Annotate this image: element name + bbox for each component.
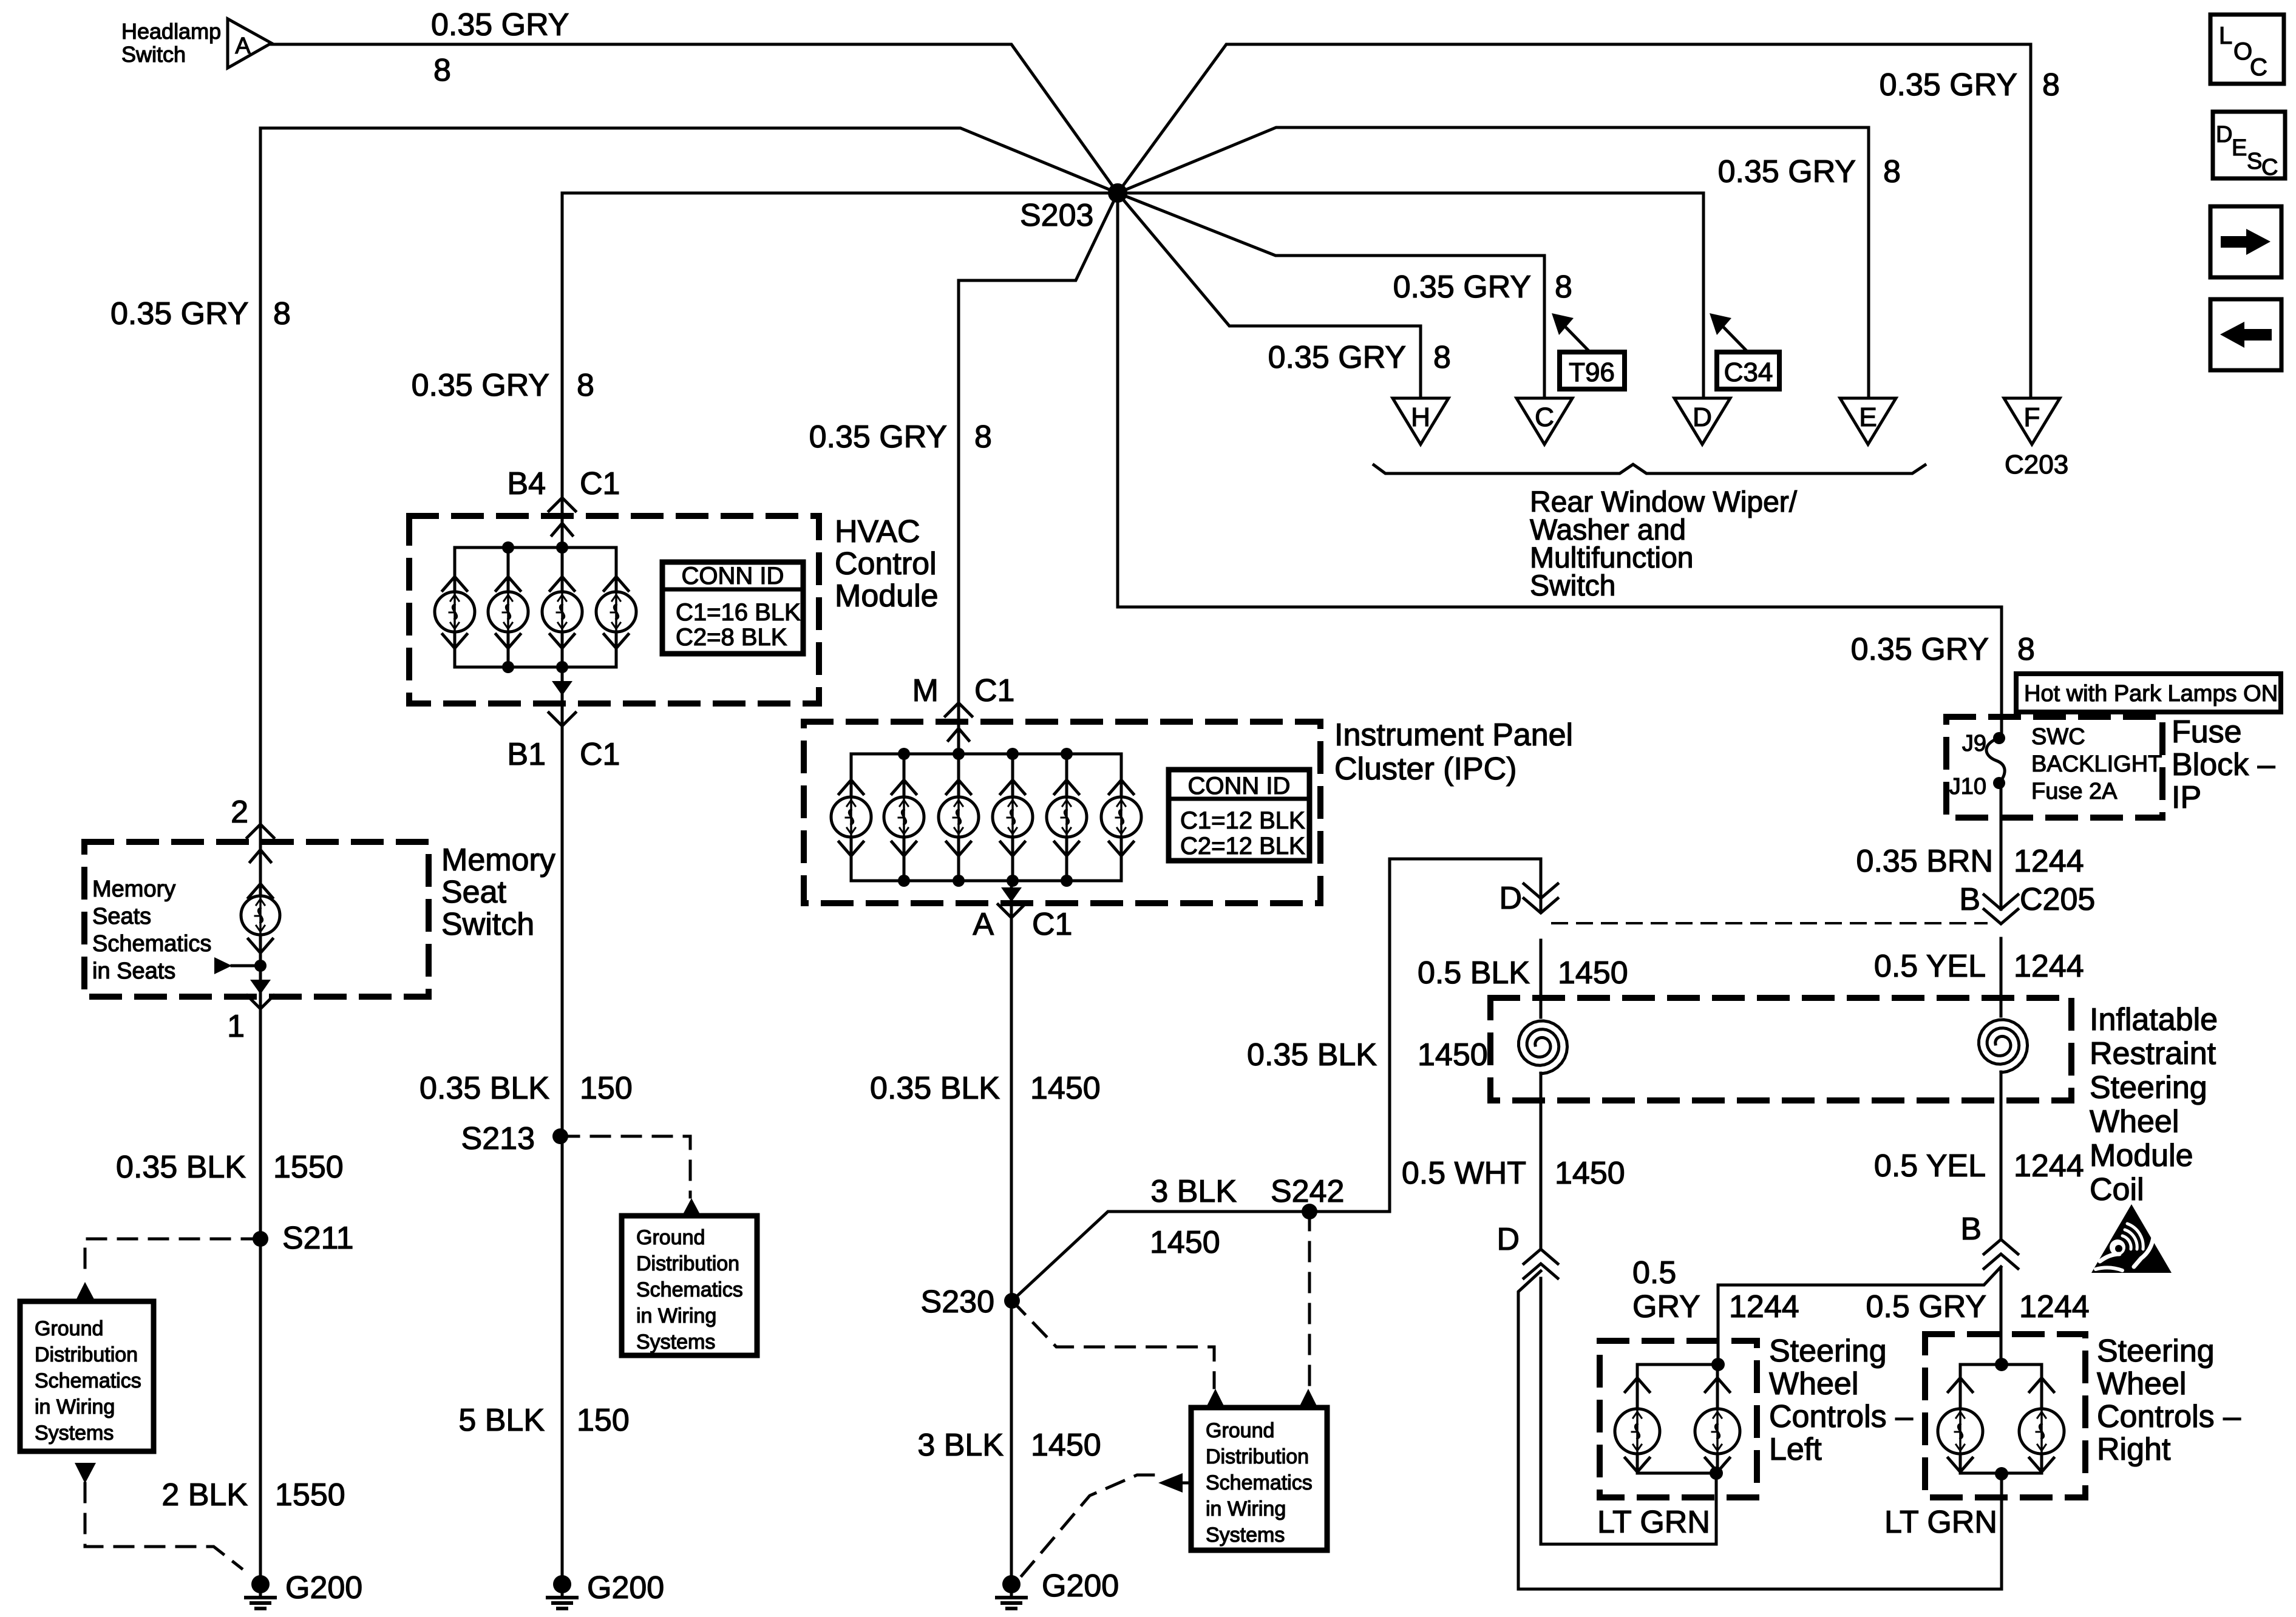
svg-text:2 BLK: 2 BLK [161, 1477, 248, 1513]
svg-text:0.35 BLK: 0.35 BLK [116, 1150, 246, 1185]
svg-text:Hot with Park Lamps ON: Hot with Park Lamps ON [2024, 681, 2278, 707]
svg-text:BACKLIGHT: BACKLIGHT [2031, 751, 2162, 777]
svg-text:1450: 1450 [1150, 1225, 1220, 1260]
svg-text:G200: G200 [1042, 1568, 1119, 1604]
svg-text:8: 8 [974, 419, 992, 455]
svg-text:in Wiring: in Wiring [35, 1395, 115, 1419]
svg-text:in Seats: in Seats [92, 958, 175, 984]
svg-text:Seats: Seats [92, 904, 151, 929]
svg-text:1450: 1450 [1418, 1037, 1488, 1073]
svg-text:S230: S230 [921, 1284, 994, 1320]
svg-text:Controls –: Controls – [2097, 1399, 2241, 1434]
svg-text:8: 8 [577, 368, 594, 403]
svg-text:Seat: Seat [441, 875, 507, 910]
svg-text:B: B [1960, 1212, 1982, 1247]
svg-text:1244: 1244 [2019, 1289, 2090, 1324]
svg-text:G200: G200 [587, 1570, 664, 1605]
svg-text:GRY: GRY [1632, 1289, 1700, 1324]
svg-text:D: D [1499, 881, 1522, 916]
svg-text:Module: Module [2090, 1138, 2193, 1173]
svg-text:C1=16 BLK: C1=16 BLK [676, 599, 801, 626]
svg-text:1244: 1244 [1729, 1289, 1799, 1324]
svg-text:LT GRN: LT GRN [1597, 1505, 1710, 1540]
svg-text:3 BLK: 3 BLK [1150, 1174, 1237, 1209]
svg-text:E: E [1859, 402, 1877, 432]
svg-text:C203: C203 [2005, 450, 2068, 480]
svg-text:LT GRN: LT GRN [1884, 1505, 1997, 1540]
svg-text:in Wiring: in Wiring [636, 1304, 716, 1327]
svg-text:1450: 1450 [1558, 955, 1628, 991]
svg-text:CONN ID: CONN ID [682, 563, 784, 589]
svg-text:0.35 GRY: 0.35 GRY [1718, 154, 1856, 189]
svg-text:150: 150 [577, 1403, 630, 1438]
svg-text:Systems: Systems [35, 1422, 114, 1445]
svg-text:0.35 GRY: 0.35 GRY [1268, 340, 1406, 375]
svg-text:8: 8 [1433, 340, 1451, 375]
svg-text:C2=8 BLK: C2=8 BLK [676, 624, 787, 651]
svg-text:0.5 GRY: 0.5 GRY [1866, 1289, 1986, 1324]
svg-text:Memory: Memory [441, 842, 555, 878]
svg-text:Restraint: Restraint [2090, 1036, 2216, 1071]
svg-text:G200: G200 [285, 1570, 362, 1605]
svg-text:Distribution: Distribution [35, 1343, 138, 1366]
svg-text:8: 8 [433, 53, 451, 88]
svg-text:HVAC: HVAC [835, 514, 920, 549]
svg-text:Cluster (IPC): Cluster (IPC) [1334, 751, 1517, 787]
svg-text:J10: J10 [1949, 774, 1986, 799]
svg-text:0.5 YEL: 0.5 YEL [1874, 949, 1986, 984]
svg-text:Distribution: Distribution [1206, 1445, 1309, 1468]
svg-text:1550: 1550 [273, 1150, 344, 1185]
svg-text:Memory: Memory [92, 876, 175, 902]
svg-text:D: D [2216, 122, 2232, 147]
svg-text:Systems: Systems [636, 1331, 715, 1354]
svg-text:Coil: Coil [2090, 1172, 2144, 1207]
svg-text:Instrument Panel: Instrument Panel [1334, 717, 1573, 753]
svg-text:C34: C34 [1724, 358, 1773, 387]
svg-text:Steering: Steering [1769, 1334, 1887, 1369]
svg-text:Wheel: Wheel [2097, 1366, 2186, 1402]
svg-text:C1=12 BLK: C1=12 BLK [1180, 807, 1305, 834]
svg-text:0.35 GRY: 0.35 GRY [412, 368, 549, 403]
svg-text:D: D [1693, 402, 1712, 432]
svg-text:B1: B1 [507, 737, 546, 772]
svg-text:2: 2 [231, 795, 248, 830]
svg-text:1244: 1244 [2014, 1148, 2084, 1184]
svg-text:1450: 1450 [1555, 1156, 1625, 1191]
svg-text:S213: S213 [461, 1121, 535, 1156]
svg-text:Right: Right [2097, 1432, 2171, 1467]
svg-text:1450: 1450 [1030, 1071, 1101, 1106]
svg-text:S203: S203 [1020, 198, 1093, 233]
svg-text:Block –: Block – [2172, 747, 2275, 782]
svg-text:Switch: Switch [121, 42, 186, 67]
svg-text:0.35 GRY: 0.35 GRY [809, 419, 947, 455]
svg-text:0.5: 0.5 [1632, 1255, 1676, 1290]
svg-text:Fuse: Fuse [2172, 714, 2242, 750]
svg-text:1550: 1550 [275, 1477, 345, 1513]
svg-text:Schematics: Schematics [636, 1278, 743, 1301]
svg-text:0.35 GRY: 0.35 GRY [110, 296, 248, 331]
svg-text:Controls –: Controls – [1769, 1399, 1913, 1434]
svg-text:Ground: Ground [35, 1317, 103, 1340]
svg-text:J9: J9 [1962, 731, 1986, 756]
svg-text:SWC: SWC [2031, 724, 2085, 750]
svg-text:C1: C1 [580, 737, 620, 772]
svg-text:Steering: Steering [2097, 1334, 2215, 1369]
svg-text:1244: 1244 [2014, 949, 2084, 984]
svg-text:L: L [2219, 22, 2232, 49]
svg-text:C1: C1 [974, 673, 1014, 708]
svg-text:Ground: Ground [1206, 1419, 1274, 1442]
svg-text:0.5 BLK: 0.5 BLK [1418, 955, 1530, 991]
svg-text:CONN ID: CONN ID [1188, 773, 1291, 799]
svg-text:8: 8 [2017, 632, 2035, 667]
svg-text:Systems: Systems [1206, 1524, 1285, 1547]
svg-text:0.35 BLK: 0.35 BLK [870, 1071, 1000, 1106]
svg-text:150: 150 [580, 1071, 633, 1106]
svg-text:B4: B4 [507, 466, 546, 501]
svg-text:0.35 GRY: 0.35 GRY [431, 7, 569, 42]
svg-text:8: 8 [1883, 154, 1901, 189]
svg-text:5 BLK: 5 BLK [458, 1403, 545, 1438]
svg-text:C: C [2261, 155, 2278, 180]
svg-text:Module: Module [835, 578, 939, 614]
svg-text:Distribution: Distribution [636, 1252, 739, 1275]
svg-text:Inflatable: Inflatable [2090, 1002, 2218, 1037]
svg-text:1450: 1450 [1031, 1428, 1101, 1463]
svg-text:M: M [912, 673, 939, 708]
svg-text:Headlamp: Headlamp [121, 19, 221, 44]
svg-text:T96: T96 [1569, 358, 1615, 387]
svg-text:B: B [1959, 882, 1980, 917]
svg-text:C205: C205 [2020, 882, 2095, 917]
svg-text:0.35 GRY: 0.35 GRY [1880, 67, 2017, 103]
svg-text:Steering: Steering [2090, 1070, 2207, 1105]
svg-text:Wheel: Wheel [2090, 1104, 2179, 1139]
svg-text:IP: IP [2172, 780, 2201, 815]
svg-text:S242: S242 [1271, 1174, 1344, 1209]
svg-text:F: F [2024, 402, 2040, 432]
svg-text:C1: C1 [1032, 907, 1072, 942]
svg-text:A: A [235, 33, 251, 59]
svg-text:S211: S211 [282, 1221, 354, 1256]
svg-text:H: H [1411, 402, 1430, 432]
svg-text:C: C [2250, 54, 2267, 81]
svg-text:D: D [1496, 1222, 1520, 1257]
svg-text:3 BLK: 3 BLK [917, 1428, 1004, 1463]
svg-text:Control: Control [835, 546, 937, 581]
svg-text:A: A [973, 907, 994, 942]
svg-text:0.35 BLK: 0.35 BLK [1247, 1037, 1377, 1073]
svg-text:8: 8 [2042, 67, 2060, 103]
svg-text:Switch: Switch [1530, 570, 1615, 602]
svg-text:0.35 BRN: 0.35 BRN [1856, 844, 1993, 879]
svg-text:C: C [1535, 402, 1554, 432]
svg-text:Schematics: Schematics [92, 931, 211, 957]
svg-text:8: 8 [273, 296, 291, 331]
svg-text:Schematics: Schematics [35, 1369, 141, 1392]
svg-text:0.5 WHT: 0.5 WHT [1402, 1156, 1526, 1191]
svg-text:1: 1 [227, 1009, 245, 1044]
svg-text:Wheel: Wheel [1769, 1366, 1858, 1402]
svg-text:0.5 YEL: 0.5 YEL [1874, 1148, 1986, 1184]
svg-text:C2=12 BLK: C2=12 BLK [1180, 833, 1305, 859]
svg-text:S: S [2247, 149, 2262, 174]
svg-text:Ground: Ground [636, 1226, 705, 1249]
svg-text:Left: Left [1769, 1432, 1822, 1467]
svg-text:E: E [2232, 135, 2247, 161]
svg-text:0.35 GRY: 0.35 GRY [1851, 632, 1989, 667]
svg-text:1244: 1244 [2014, 844, 2084, 879]
svg-text:Fuse 2A: Fuse 2A [2031, 779, 2118, 804]
svg-text:8: 8 [1555, 269, 1572, 305]
svg-text:Switch: Switch [441, 907, 534, 942]
svg-text:C1: C1 [580, 466, 620, 501]
svg-text:Schematics: Schematics [1206, 1471, 1313, 1494]
svg-text:0.35 GRY: 0.35 GRY [1393, 269, 1531, 305]
svg-text:in Wiring: in Wiring [1206, 1497, 1286, 1520]
svg-text:0.35 BLK: 0.35 BLK [419, 1071, 549, 1106]
